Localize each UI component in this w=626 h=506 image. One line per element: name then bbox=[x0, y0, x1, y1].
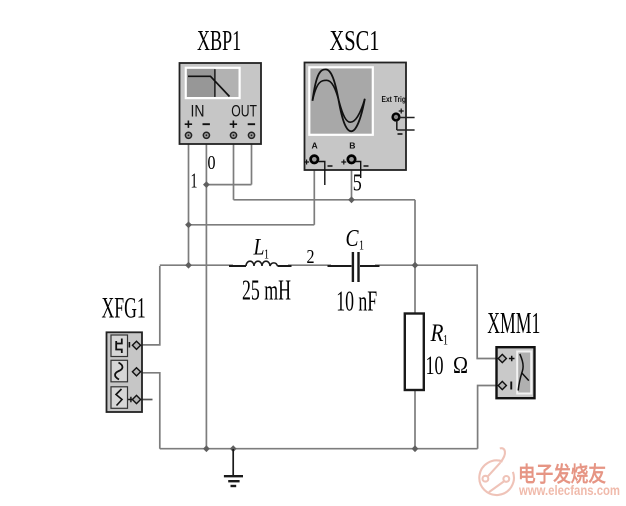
svg-text:B: B bbox=[349, 141, 355, 151]
wire OUT+ to node5 horizontal y=200 bbox=[234, 199, 416, 201]
svg-text:OUT: OUT bbox=[231, 101, 257, 120]
svg-text:1: 1 bbox=[264, 248, 269, 263]
wire B channel vertical (node 5) bbox=[351, 163, 353, 200]
svg-text:XFG1: XFG1 bbox=[102, 292, 146, 325]
XSC1 B plus mark bbox=[341, 160, 346, 165]
XSC1 waveform small bbox=[313, 80, 365, 122]
svg-text:XBP1: XBP1 bbox=[197, 25, 241, 57]
XMM1 plus sign bbox=[509, 356, 515, 362]
svg-text:C: C bbox=[346, 226, 360, 252]
XBP1 terminal IN- bbox=[203, 132, 209, 138]
watermark logo circle bbox=[479, 448, 514, 495]
inductor L1 leads bbox=[229, 265, 292, 267]
XSC1 A terminal bbox=[311, 156, 318, 163]
XFG1 sine wave glyph bbox=[115, 363, 122, 380]
wire bottom horizontal ground bus bbox=[160, 448, 478, 450]
XBP1 OUT+ plus sign bbox=[230, 121, 237, 128]
resistor R1 body bbox=[405, 314, 424, 391]
junction node1 at IN+ main bbox=[185, 262, 192, 269]
junction bottom R1 bbox=[412, 445, 419, 452]
wire XFG1 common terminal to bottom bbox=[141, 373, 160, 449]
svg-text:IN: IN bbox=[191, 101, 205, 120]
XMM1 needle tick bbox=[521, 373, 528, 381]
XFG1 minus bar mark bbox=[129, 342, 131, 348]
svg-text:1: 1 bbox=[191, 169, 198, 193]
svg-text:0: 0 bbox=[208, 152, 216, 174]
wire R1 top lead bbox=[414, 266, 416, 314]
wire XFG1 plus terminal to main wire bbox=[141, 266, 160, 345]
instrument XFG1 box bbox=[107, 332, 143, 412]
inductor L1 coil bbox=[246, 261, 278, 266]
svg-text:10 nF: 10 nF bbox=[336, 286, 377, 318]
XSC1 ext trig plus bbox=[399, 109, 404, 114]
wire right branch to XMM1 plus bbox=[477, 265, 496, 358]
XBP1 terminal OUT- bbox=[248, 132, 254, 138]
XSC1 ext trig minus bbox=[398, 133, 403, 135]
wire R1 bottom lead bbox=[414, 390, 416, 449]
wire node5 vertical down to main bbox=[414, 200, 416, 266]
XSC1 B terminal bbox=[348, 156, 355, 163]
XBP1 OUT- minus sign bbox=[248, 123, 255, 125]
XFG1 terminal minus (bottom) bbox=[132, 395, 140, 403]
instrument XBP1 box bbox=[180, 63, 262, 144]
svg-text:XMM1: XMM1 bbox=[487, 306, 540, 340]
XMM1 needle arc bbox=[518, 354, 523, 391]
wire XFG1 minus stub bbox=[141, 399, 153, 401]
junction node5 main bbox=[412, 262, 419, 269]
XFG1 sine wave button bbox=[111, 360, 128, 382]
svg-text:10: 10 bbox=[426, 351, 444, 380]
svg-text:2: 2 bbox=[307, 246, 315, 268]
XFG1 square wave button bbox=[111, 335, 128, 357]
XSC1 screen bbox=[309, 67, 373, 135]
svg-text:25 mH: 25 mH bbox=[242, 275, 291, 307]
wire main horizontal node1 segment bbox=[160, 264, 478, 266]
XSC1 A plus mark bbox=[304, 160, 309, 165]
ground bbox=[224, 449, 243, 486]
XBP1 response curve bbox=[188, 76, 230, 96]
instrument XMM1 box bbox=[497, 347, 535, 398]
XBP1 terminal IN+ bbox=[185, 132, 191, 138]
XBP1 screen vertical cursor bbox=[214, 69, 216, 97]
wire XMM1 minus down to bottom bbox=[478, 386, 497, 449]
svg-text:www.elecfans.com: www.elecfans.com bbox=[518, 483, 620, 498]
XFG1 terminal plus (top) bbox=[132, 341, 140, 349]
svg-text:1: 1 bbox=[359, 239, 364, 254]
XSC1 B minus mark bbox=[364, 165, 369, 167]
XSC1 B minus hook bbox=[355, 162, 360, 179]
svg-text:Ext Trig: Ext Trig bbox=[382, 94, 407, 104]
XBP1 terminal OUT+ bbox=[230, 132, 236, 138]
capacitor C1 plates bbox=[352, 252, 354, 282]
XFG1 square wave glyph bbox=[116, 339, 122, 354]
instrument XSC1 box bbox=[305, 63, 407, 171]
XMM1 terminal minus bbox=[498, 381, 506, 389]
svg-text:1: 1 bbox=[443, 333, 448, 349]
wire OUT+ vertical bbox=[233, 138, 235, 200]
junction IN+ A-wire bbox=[185, 221, 192, 228]
XMM1 display panel bbox=[517, 352, 531, 394]
junction bottom ground bbox=[230, 445, 237, 452]
wire OUT- to IN- horizontal bbox=[206, 184, 251, 186]
XFG1 plus sign mark bbox=[128, 397, 134, 403]
capacitor C1 leads bbox=[328, 265, 380, 267]
XBP1 IN+ plus sign bbox=[185, 121, 192, 128]
junction node5 B bbox=[348, 196, 355, 203]
wire A channel horizontal y=225 bbox=[189, 224, 315, 226]
XSC1 ext trig stub wires bbox=[397, 118, 415, 131]
XBP1 IN- minus sign bbox=[203, 123, 210, 125]
XMM1 terminal plus bbox=[498, 354, 506, 362]
svg-text:L: L bbox=[253, 235, 265, 260]
svg-text:Ω: Ω bbox=[453, 353, 468, 379]
XSC1 A minus hook bbox=[318, 162, 325, 186]
svg-text:R: R bbox=[430, 320, 444, 347]
XFG1 terminal common (middle) bbox=[132, 368, 140, 376]
wire IN- vertical (node 0) bbox=[205, 138, 207, 449]
junction IN- OUT- bbox=[203, 181, 210, 188]
wire IN+ vertical bbox=[188, 138, 190, 266]
XSC1 waveform big bbox=[313, 69, 365, 131]
XFG1 triangle wave button bbox=[111, 387, 128, 409]
XMM1 minus sign bbox=[510, 382, 512, 390]
XFG1 triangle wave glyph bbox=[116, 389, 122, 406]
XSC1 A minus mark bbox=[328, 165, 333, 167]
junction bottom IN- bbox=[203, 445, 210, 452]
wire OUT- vertical bbox=[251, 138, 253, 185]
XSC1 ext trig terminal bbox=[393, 114, 400, 121]
XBP1 screen bbox=[186, 68, 240, 98]
wire A channel vertical bbox=[313, 163, 315, 225]
svg-text:XSC1: XSC1 bbox=[330, 25, 380, 57]
svg-text:A: A bbox=[312, 141, 318, 151]
